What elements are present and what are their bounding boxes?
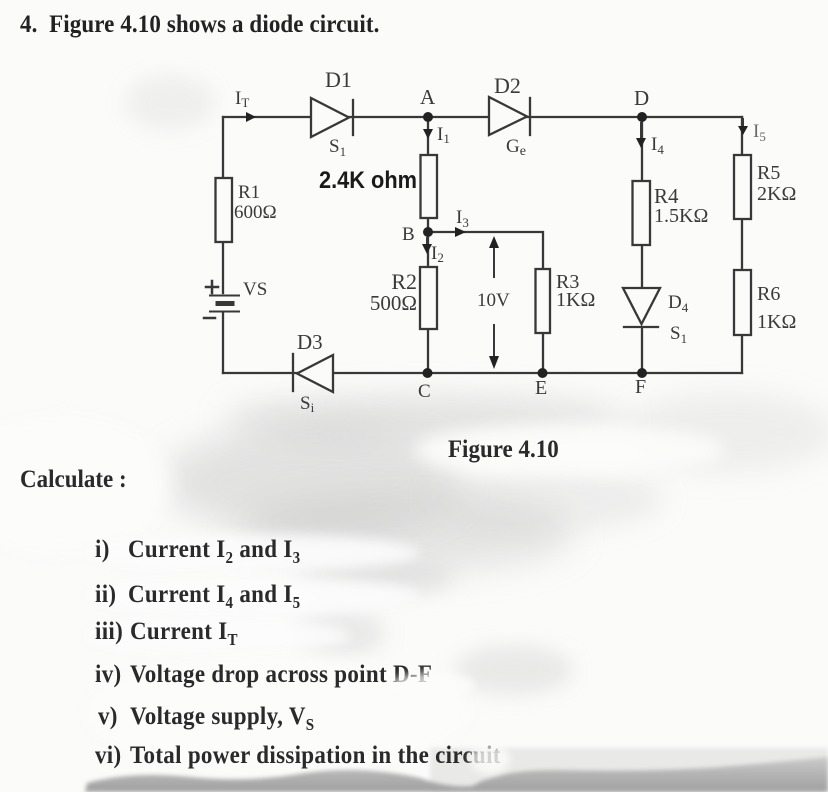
resistor R6	[734, 270, 751, 335]
resistor R1	[216, 178, 233, 242]
wire: D4 to node F	[641, 327, 643, 373]
node D	[637, 112, 647, 122]
arrow current I4	[636, 123, 646, 148]
resistor R2	[420, 267, 437, 329]
resistor 2.4K ohm	[421, 155, 438, 218]
arrow current I5	[738, 119, 748, 135]
arrow current I2	[422, 238, 432, 254]
diode D2	[489, 97, 530, 135]
node C	[423, 368, 433, 378]
arrow current I1	[423, 123, 433, 139]
wire: R3 bottom to node E	[542, 333, 544, 373]
node A	[423, 112, 433, 122]
resistor R4	[633, 181, 651, 245]
wire: top rail	[223, 116, 742, 118]
title	[20, 10, 379, 39]
battery VS	[204, 281, 239, 318]
diode D4	[623, 288, 660, 327]
wire: bottom rail	[223, 372, 742, 374]
figure caption	[448, 435, 559, 464]
wire: R4 to D4	[641, 245, 643, 288]
diode D3	[293, 354, 333, 392]
arrow current I3	[455, 227, 466, 237]
node E	[538, 368, 548, 378]
node B	[423, 227, 433, 237]
wire: left branch vertical	[222, 117, 224, 373]
arrow 10V up	[489, 236, 499, 277]
wire: right branch vertical	[741, 117, 743, 373]
arrow current IT	[246, 112, 256, 122]
white smudge over D-F	[390, 672, 475, 698]
diode D1	[311, 98, 353, 137]
wire: node A to 2.4K resistor to node B	[427, 117, 429, 232]
wire: node B to R3 top corner	[428, 232, 543, 269]
resistor R3	[536, 269, 551, 333]
node F	[637, 368, 647, 378]
white blobs restoring paper around text	[415, 424, 725, 476]
white smudge over trailing t of circuit	[470, 744, 510, 774]
arrow 10V down	[489, 325, 499, 369]
resistor R5	[734, 155, 751, 219]
wire: node B to R2 to node C	[427, 232, 429, 373]
wire: node D to R4	[641, 117, 643, 181]
Calculate heading	[20, 465, 127, 494]
background gray washes (scan artifacts)	[125, 75, 215, 130]
